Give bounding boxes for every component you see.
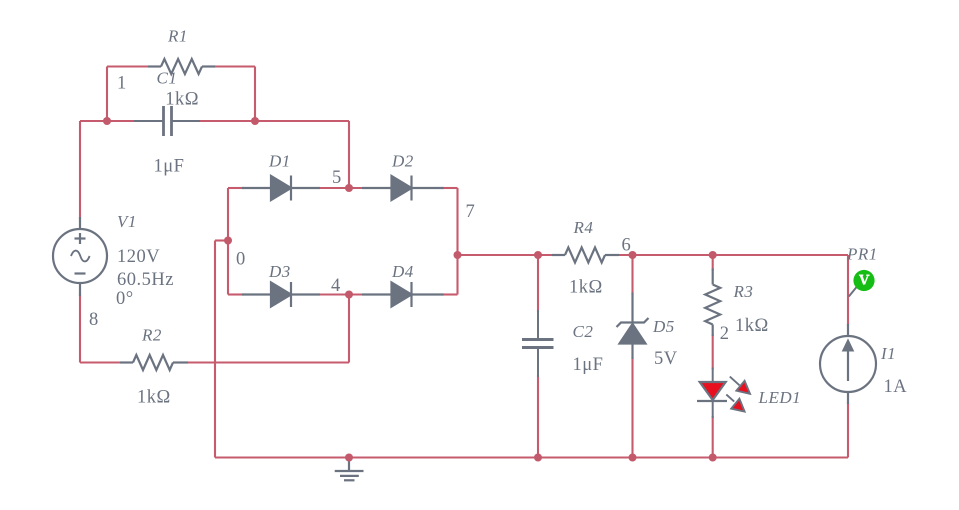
svg-text:C2: C2 (573, 322, 594, 341)
junction node 0 (224, 237, 232, 245)
wire (198, 120, 255, 122)
resistor R4 (552, 248, 619, 263)
svg-text:1kΩ: 1kΩ (569, 278, 603, 298)
junction dot (251, 117, 259, 125)
wire (80, 361, 122, 363)
svg-text:D2: D2 (391, 152, 414, 171)
svg-text:1: 1 (117, 74, 127, 94)
svg-text:0: 0 (236, 250, 246, 270)
svg-text:60.5Hz: 60.5Hz (117, 270, 174, 290)
svg-text:120V: 120V (117, 247, 160, 267)
junction dot (345, 454, 353, 462)
wire (254, 67, 256, 122)
svg-text:R3: R3 (733, 282, 754, 301)
resistor R1 (148, 59, 215, 74)
resistor R3 (705, 269, 720, 337)
svg-text:LED1: LED1 (758, 388, 802, 407)
svg-text:0°: 0° (116, 289, 134, 309)
svg-text:D3: D3 (268, 262, 291, 281)
wire (458, 254, 555, 256)
wire (213, 65, 255, 67)
wire (847, 255, 849, 326)
wire (442, 293, 458, 295)
wire (79, 294, 81, 363)
voltage source V1 (53, 217, 107, 296)
wire (631, 255, 633, 295)
svg-text:1μF: 1μF (573, 355, 604, 375)
svg-text:5: 5 (332, 168, 342, 188)
junction node 4 (345, 291, 353, 299)
junction dot (709, 454, 717, 462)
wire (847, 402, 849, 458)
svg-text:D1: D1 (268, 152, 291, 171)
capacitor C2 (522, 341, 554, 347)
diode D1 (242, 176, 320, 201)
wire (228, 293, 244, 295)
svg-text:1kΩ: 1kΩ (735, 316, 769, 336)
svg-text:8: 8 (89, 310, 99, 330)
wire (442, 187, 458, 189)
wire (186, 361, 349, 363)
wire (712, 255, 714, 271)
wire (80, 120, 136, 122)
probe PR1 (849, 270, 875, 297)
diode D3 (242, 282, 320, 307)
junction dot (709, 251, 717, 259)
wire (631, 357, 633, 458)
wire (215, 456, 848, 458)
ground (335, 458, 364, 481)
svg-text:7: 7 (466, 202, 476, 222)
svg-text:1kΩ: 1kΩ (137, 388, 171, 408)
svg-text:I1: I1 (880, 344, 896, 363)
junction dot (534, 454, 542, 462)
diode D4 (362, 282, 444, 307)
wire (255, 120, 349, 122)
wire (107, 65, 150, 67)
diode D2 (362, 176, 444, 201)
resistor R2 (120, 355, 188, 370)
wire (712, 335, 714, 370)
wire (215, 239, 228, 241)
svg-text:D5: D5 (652, 317, 675, 336)
current source I1 (820, 324, 876, 404)
wire (318, 293, 364, 295)
svg-text:4: 4 (331, 276, 341, 296)
svg-text:PR1: PR1 (846, 245, 878, 264)
svg-text:R2: R2 (141, 326, 162, 345)
wire (106, 67, 108, 122)
svg-text:5V: 5V (654, 349, 678, 369)
zener diode D5 (617, 293, 649, 360)
wire (79, 121, 81, 219)
svg-text:1μF: 1μF (154, 157, 185, 177)
wire (537, 375, 539, 458)
junction dot (534, 251, 542, 259)
junction node 6 (629, 251, 637, 259)
wire (348, 295, 350, 363)
junction dot (629, 454, 637, 462)
junction dot (103, 117, 111, 125)
junction node 7 (454, 251, 462, 259)
wire (214, 241, 216, 458)
svg-text:2: 2 (720, 324, 730, 344)
svg-text:R1: R1 (167, 27, 188, 46)
junction node 5 (345, 184, 353, 192)
wire (318, 187, 364, 189)
capacitor C1 (164, 106, 171, 136)
LED LED1 (697, 368, 750, 419)
wire (456, 188, 458, 295)
svg-text:C1: C1 (157, 69, 178, 88)
svg-text:1A: 1A (884, 377, 908, 397)
wire (537, 255, 539, 312)
wire (617, 254, 848, 256)
wire (228, 187, 244, 189)
wire (712, 416, 714, 458)
svg-text:R4: R4 (573, 218, 594, 237)
wire (348, 121, 350, 188)
svg-text:V1: V1 (117, 212, 137, 231)
svg-text:D4: D4 (391, 262, 414, 281)
wire (227, 188, 229, 295)
